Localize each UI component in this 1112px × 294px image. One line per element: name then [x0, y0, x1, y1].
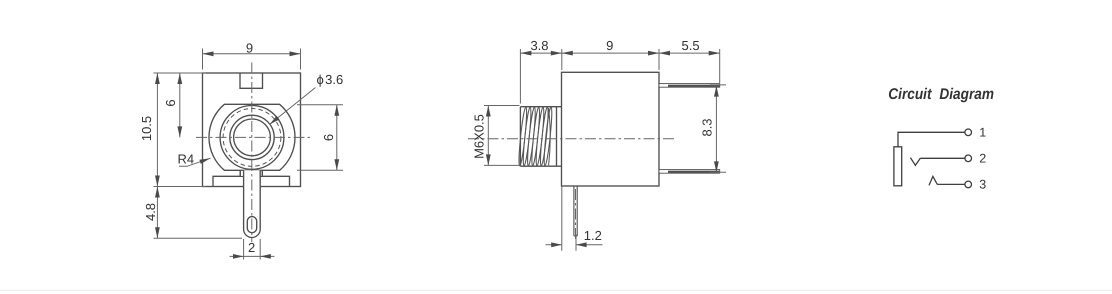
svg-text:M6X0.5: M6X0.5 — [471, 114, 486, 159]
svg-text:4.8: 4.8 — [143, 203, 158, 221]
svg-text:2: 2 — [979, 152, 986, 166]
svg-text:10.5: 10.5 — [139, 116, 154, 141]
svg-text:3.8: 3.8 — [530, 38, 548, 53]
svg-text:6: 6 — [321, 134, 336, 141]
svg-text:ϕ3.6: ϕ3.6 — [317, 72, 344, 87]
svg-text:3: 3 — [979, 178, 986, 192]
svg-text:8.3: 8.3 — [700, 118, 715, 136]
svg-text:9: 9 — [606, 38, 613, 53]
svg-text:CircuitDiagram: CircuitDiagram — [888, 86, 994, 103]
svg-text:5.5: 5.5 — [682, 38, 700, 53]
svg-text:2: 2 — [248, 240, 255, 255]
svg-text:1: 1 — [979, 126, 986, 140]
svg-text:6: 6 — [163, 99, 178, 106]
svg-text:R4: R4 — [178, 152, 195, 167]
svg-text:1.2: 1.2 — [584, 228, 602, 243]
svg-text:9: 9 — [246, 41, 253, 56]
